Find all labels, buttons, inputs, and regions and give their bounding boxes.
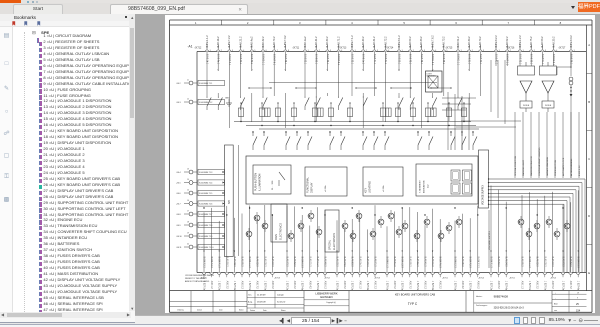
svg-text:2: 2 <box>365 50 366 52</box>
svg-text:B.6M.1.2.3: B.6M.1.2.3 <box>400 257 402 269</box>
svg-text:B.A5.50.1: B.A5.50.1 <box>397 54 400 65</box>
svg-text:1: 1 <box>498 50 499 52</box>
svg-text:Gen.: Gen. <box>248 294 252 296</box>
svg-text:B.6M.7.1.3: B.6M.7.1.3 <box>489 257 491 269</box>
svg-text:11.09.09: 11.09.09 <box>257 295 266 297</box>
svg-text:B.A5.34.3: B.A5.34.3 <box>504 257 507 268</box>
svg-text:DISPLAY: DISPLAY <box>310 182 313 193</box>
svg-text:13: 13 <box>187 168 189 170</box>
svg-text:B.A5.1a.2: B.A5.1a.2 <box>303 36 306 48</box>
svg-text:Ordering: Ordering <box>177 308 184 311</box>
svg-text:KEY: KEY <box>364 188 367 193</box>
svg-text:9-5009084.T1.7: 9-5009084.T1.7 <box>199 214 212 216</box>
svg-text:6: 6 <box>455 21 457 25</box>
svg-text:1 B27.4a: 1 B27.4a <box>232 281 234 291</box>
svg-text:1: 1 <box>194 21 196 25</box>
svg-text:154: 154 <box>576 310 581 313</box>
svg-text:A06.1.2: A06.1.2 <box>520 281 523 290</box>
svg-text:-X6.6: -X6.6 <box>176 193 181 195</box>
svg-text:1: 1 <box>460 50 461 52</box>
svg-text:Blatt: Blatt <box>554 303 558 306</box>
svg-text:B.A5.50.3: B.A5.50.3 <box>225 257 228 268</box>
svg-text:A06.4.2: A06.4.2 <box>461 281 464 290</box>
svg-text:A06.3.2: A06.3.2 <box>225 281 228 290</box>
svg-text:AUTOMATIC LOCK: AUTOMATIC LOCK <box>562 157 565 176</box>
svg-text:4: 4 <box>556 50 557 52</box>
svg-text:Date: Date <box>263 309 267 312</box>
svg-text:B.6M.7.2.3: B.6M.7.2.3 <box>468 257 470 269</box>
svg-text:B.A5.32.3: B.A5.32.3 <box>255 257 258 268</box>
svg-text:B.A5.1b.3: B.A5.1b.3 <box>358 257 361 268</box>
svg-text:-X6.9: -X6.9 <box>176 225 181 227</box>
svg-text:B.A5.31.1: B.A5.31.1 <box>384 54 387 65</box>
svg-text:B.A5.51.3: B.A5.51.3 <box>393 257 396 268</box>
svg-text:ARE NOT PATH-RELATED: ARE NOT PATH-RELATED <box>185 280 210 283</box>
svg-text:1: 1 <box>522 50 523 52</box>
svg-text:4: 4 <box>388 50 389 52</box>
svg-text:SPI: SPI <box>228 200 231 204</box>
svg-text:5: 5 <box>446 50 447 52</box>
svg-text:B.A5.32.1: B.A5.32.1 <box>350 54 353 65</box>
svg-text:B.A5.30.1: B.A5.30.1 <box>239 54 242 65</box>
svg-text:3: 3 <box>545 50 546 52</box>
svg-text:-X712: -X712 <box>324 278 331 280</box>
svg-text:20: 20 <box>187 243 189 245</box>
svg-text:B.A5.72.3: B.A5.72.3 <box>550 257 553 268</box>
svg-text:1 B27.6a: 1 B27.6a <box>315 281 317 291</box>
svg-text:B.A5.35.1: B.A5.35.1 <box>442 54 445 65</box>
svg-text:B.A5.1b.2: B.A5.1b.2 <box>217 36 220 48</box>
svg-text:15: 15 <box>187 189 189 191</box>
svg-text:B.A5.72.1: B.A5.72.1 <box>518 54 521 65</box>
svg-text:B.A5.74.1: B.A5.74.1 <box>419 54 422 65</box>
svg-text:B.A5.70.3: B.A5.70.3 <box>365 257 368 268</box>
svg-text:D: D <box>588 214 590 218</box>
svg-text:9-5009084.T1.5: 9-5009084.T1.5 <box>199 193 212 195</box>
svg-text:B.A5.40.3: B.A5.40.3 <box>323 257 326 268</box>
svg-text:12: 12 <box>187 98 189 100</box>
svg-text:B.6M.7.2.1: B.6M.7.2.1 <box>337 54 339 66</box>
svg-text:B.A5.34.3: B.A5.34.3 <box>232 257 235 268</box>
svg-text:+: + <box>555 292 556 294</box>
svg-text:A06.7.2: A06.7.2 <box>255 281 258 290</box>
svg-text:Name: Name <box>281 310 286 312</box>
svg-text:A06.6.2: A06.6.2 <box>476 281 479 290</box>
svg-text:19: 19 <box>577 292 579 294</box>
svg-text:±≡ 68x: ±≡ 68x <box>324 184 327 192</box>
svg-text:B.A5.4a.3: B.A5.4a.3 <box>415 257 418 268</box>
svg-text:3: 3 <box>330 50 331 52</box>
svg-text:1: 1 <box>209 50 210 52</box>
svg-text:B.A5.34.1: B.A5.34.1 <box>283 54 286 65</box>
svg-text:B.6M.7.6.3: B.6M.7.6.3 <box>438 257 440 269</box>
svg-text:B.A5.33.3: B.A5.33.3 <box>335 257 338 268</box>
svg-text:PARKING LIGHT: PARKING LIGHT <box>522 159 525 176</box>
svg-text:Identnr.:: Identnr.: <box>476 295 483 298</box>
svg-text:1: 1 <box>573 50 574 52</box>
svg-text:B.A5.40.1: B.A5.40.1 <box>250 54 253 65</box>
svg-text:-A1: -A1 <box>187 45 192 49</box>
svg-text:ELECTRONICS: ELECTRONICS <box>333 233 336 250</box>
svg-text:3: 3 <box>232 50 233 52</box>
svg-text:Copyright (c): Copyright (c) <box>326 301 336 304</box>
svg-text:B.6M.7.2.2: B.6M.7.2.2 <box>228 35 231 48</box>
svg-text:B.A5.71.3: B.A5.71.3 <box>373 257 376 268</box>
svg-text:B.A5.31.2: B.A5.31.2 <box>373 36 376 48</box>
svg-text:B.6M.1.1.3: B.6M.1.1.3 <box>248 257 250 269</box>
svg-text:A06.7.2: A06.7.2 <box>569 281 572 290</box>
svg-text:B.A5.21.1: B.A5.21.1 <box>467 54 470 65</box>
svg-text:2: 2 <box>471 50 472 52</box>
svg-text:VOLTAGE SUPPLY: VOLTAGE SUPPLY <box>481 184 484 205</box>
svg-text:11: 11 <box>187 79 189 81</box>
svg-text:B.A5.32.3: B.A5.32.3 <box>535 257 538 268</box>
svg-text:2: 2 <box>533 50 534 52</box>
svg-text:B.A5.75.2: B.A5.75.2 <box>530 36 533 48</box>
svg-text:ludwigD: ludwigD <box>277 294 284 296</box>
svg-text:-X714: -X714 <box>550 278 557 280</box>
svg-text:TYP C: TYP C <box>407 302 417 306</box>
svg-text:4: 4 <box>351 21 353 25</box>
svg-text:B: B <box>588 100 590 104</box>
svg-text:1 B27.6a: 1 B27.6a <box>453 281 455 291</box>
svg-text:2: 2 <box>318 50 319 52</box>
svg-text:4: 4 <box>435 50 436 52</box>
svg-text:WARNING BEACON: WARNING BEACON <box>530 156 533 176</box>
svg-text:B.6M.1.1.3: B.6M.1.1.3 <box>528 257 530 269</box>
svg-text:B.A5.73.3: B.A5.73.3 <box>285 257 288 268</box>
svg-text:B.6M.7.1.1: B.6M.7.1.1 <box>505 54 507 66</box>
svg-text:4: 4 <box>243 50 244 52</box>
svg-text:MAIN: MAIN <box>275 234 278 240</box>
svg-text:1 B27.2a: 1 B27.2a <box>561 281 563 291</box>
svg-text:B.A5.1a.1: B.A5.1a.1 <box>361 54 364 65</box>
svg-text:Datum: Datum <box>250 309 256 312</box>
svg-text:B.6M.7.6.2: B.6M.7.6.2 <box>431 35 434 48</box>
svg-text:8: 8 <box>559 21 561 25</box>
svg-text:1 B27.0a: 1 B27.0a <box>468 281 470 291</box>
svg-text:B.A5.53.3: B.A5.53.3 <box>350 257 353 268</box>
svg-text:B.A5.76.1: B.A5.76.1 <box>325 54 328 65</box>
svg-text:9-5009084.T1.10: 9-5009084.T1.10 <box>199 247 213 249</box>
svg-text:1 B27.0a: 1 B27.0a <box>400 281 402 291</box>
svg-text:B.A5.71.2: B.A5.71.2 <box>337 36 340 48</box>
svg-text:-X6.2: -X6.2 <box>176 83 181 85</box>
svg-text:SPECIAL FUNCTION: SPECIAL FUNCTION <box>514 155 517 176</box>
svg-text:1 B27.4a: 1 B27.4a <box>431 281 433 291</box>
svg-text:COMPLEMENTARY HEATING: COMPLEMENTARY HEATING <box>538 147 541 176</box>
svg-text:-JX711: -JX711 <box>292 48 300 50</box>
svg-text:B.A5.40.2: B.A5.40.2 <box>362 36 365 48</box>
svg-text:B.6M.9.1.2: B.6M.9.1.2 <box>397 35 400 48</box>
svg-text:GND: GND <box>225 98 230 100</box>
svg-text:9-5009084.T1.4: 9-5009084.T1.4 <box>199 182 212 184</box>
svg-text:B.6M.1.1.2: B.6M.1.1.2 <box>205 35 208 48</box>
svg-text:B.6M.7.3.2: B.6M.7.3.2 <box>284 35 287 48</box>
svg-text:ILLUMINATION: ILLUMINATION <box>258 173 261 191</box>
svg-text:19: 19 <box>187 232 189 234</box>
svg-text:2: 2 <box>246 21 248 25</box>
svg-text:FUNCTIONAL: FUNCTIONAL <box>306 176 309 193</box>
svg-text:B.A5.31.3: B.A5.31.3 <box>431 257 434 268</box>
svg-text:B.A5.52.1: B.A5.52.1 <box>303 54 306 65</box>
svg-text:-X6.11: -X6.11 <box>176 247 181 249</box>
svg-text:VOLTAGE SUPPLY: VOLTAGE SUPPLY <box>488 230 491 250</box>
svg-text:1 B27.2a: 1 B27.2a <box>285 281 287 291</box>
svg-text:1 B27.0a: 1 B27.0a <box>335 281 337 291</box>
svg-text:INVERTER: INVERTER <box>426 75 436 77</box>
svg-text:von: von <box>554 310 557 312</box>
svg-text:1: 1 <box>354 50 355 52</box>
svg-text:-X711: -X711 <box>509 278 515 280</box>
svg-text:3: 3 <box>424 50 425 52</box>
svg-text:B.A5.41.3: B.A5.41.3 <box>423 257 426 268</box>
svg-text:B.A5.1a.3: B.A5.1a.3 <box>315 257 318 268</box>
svg-text:A06.8.2: A06.8.2 <box>343 281 346 290</box>
svg-text:B.A5.52.3: B.A5.52.3 <box>569 257 572 268</box>
svg-text:B.6M.9.2.1: B.6M.9.2.1 <box>552 54 554 66</box>
svg-text:-X714: -X714 <box>478 278 485 280</box>
svg-text:HAZARD WARNING: HAZARD WARNING <box>546 157 549 176</box>
svg-text:B.6M.9.1.1: B.6M.9.1.1 <box>261 54 263 66</box>
svg-text:B.A5.75.3: B.A5.75.3 <box>240 257 243 268</box>
svg-text:A: A <box>588 43 590 47</box>
svg-text:DIODE: DIODE <box>544 105 551 107</box>
svg-text:9-5009084.T1.2: 9-5009084.T1.2 <box>199 102 212 104</box>
svg-text:B.A5.70.1: B.A5.70.1 <box>478 54 481 65</box>
svg-text:A06.5.2: A06.5.2 <box>550 281 553 290</box>
svg-text:31 ... 36S: 31 ... 36S <box>272 180 274 190</box>
svg-text:REFER TO THE SHEET: REFER TO THE SHEET <box>185 278 208 280</box>
svg-text:3: 3 <box>483 50 484 52</box>
svg-text:B.6M.1.1.1: B.6M.1.1.1 <box>456 54 458 66</box>
svg-text:1 B27.0a: 1 B27.0a <box>543 281 545 291</box>
svg-text:A06.8.2: A06.8.2 <box>497 281 500 290</box>
svg-text:±≡ 68x: ±≡ 68x <box>382 184 385 192</box>
svg-text:A06.1.2: A06.1.2 <box>210 281 213 290</box>
svg-text:B.6M.7.3.3: B.6M.7.3.3 <box>476 257 478 269</box>
svg-text:B.A5.21.3: B.A5.21.3 <box>308 257 311 268</box>
svg-text:-X6.4: -X6.4 <box>176 172 181 174</box>
svg-text:B.A5.72.2: B.A5.72.2 <box>384 36 387 48</box>
svg-text:B.A5.75.3: B.A5.75.3 <box>520 257 523 268</box>
svg-text:EHINGEN: EHINGEN <box>320 295 332 299</box>
svg-text:2: 2 <box>509 50 510 52</box>
svg-text:CROSS REFERENCES WHICH: CROSS REFERENCES WHICH <box>185 275 214 277</box>
svg-text:-X711: -X711 <box>442 278 448 280</box>
svg-text:AFTER-RUNNING: AFTER-RUNNING <box>570 158 573 176</box>
svg-text:INDICATION: INDICATION <box>422 180 425 193</box>
svg-text:25: 25 <box>576 303 579 306</box>
svg-text:7: 7 <box>276 50 277 52</box>
svg-text:B.A5.73.2: B.A5.73.2 <box>442 36 445 48</box>
svg-text:9-5009084.T1.9: 9-5009084.T1.9 <box>199 236 212 238</box>
svg-text:B.19F.1 .12: B.19F.1 .12 <box>579 165 581 176</box>
svg-text:B.6M.7.3.1: B.6M.7.3.1 <box>227 54 229 66</box>
svg-text:4: 4 <box>341 50 342 52</box>
svg-text:18: 18 <box>187 221 189 223</box>
svg-text:1: 1 <box>307 50 308 52</box>
svg-text:1 B27.2a: 1 B27.2a <box>489 281 491 291</box>
svg-text:1 B27.4a: 1 B27.4a <box>365 281 367 291</box>
svg-text:B.6M.7.6.1: B.6M.7.6.1 <box>272 54 274 66</box>
svg-text:PRESELECTION: PRESELECTION <box>555 159 557 176</box>
svg-text:LIEBHERR WERK: LIEBHERR WERK <box>315 291 337 295</box>
svg-text:B.A5.33.1: B.A5.33.1 <box>529 54 532 65</box>
svg-text:-X713: -X713 <box>374 278 381 280</box>
svg-text:-JX717: -JX717 <box>558 48 566 50</box>
svg-text:B.A5.53.1: B.A5.53.1 <box>314 54 317 65</box>
svg-text:B.6M.9.3.2: B.6M.9.3.2 <box>569 35 572 48</box>
svg-text:18.09.09: 18.09.09 <box>257 302 266 304</box>
svg-text:1 B27.6a: 1 B27.6a <box>528 281 530 291</box>
svg-text:A06.6.2: A06.6.2 <box>323 281 326 290</box>
svg-text:9: 9 <box>577 298 578 300</box>
svg-text:9-5009084.T1.8: 9-5009084.T1.8 <box>199 225 212 227</box>
svg-text:B.A5.50.3: B.A5.50.3 <box>497 257 500 268</box>
svg-text:Ausg.: Ausg. <box>248 300 253 303</box>
svg-text:B.A5.1b.1: B.A5.1b.1 <box>205 54 208 65</box>
svg-text:A06.3.2: A06.3.2 <box>535 281 538 290</box>
svg-text:7-SEGMENT: 7-SEGMENT <box>419 180 421 193</box>
svg-text:1 B27.2a: 1 B27.2a <box>217 281 219 291</box>
svg-text:B.A5.35.3: B.A5.35.3 <box>461 257 464 268</box>
svg-text:C: C <box>588 157 590 161</box>
svg-text:B.A5.52.3: B.A5.52.3 <box>293 257 296 268</box>
svg-text:B.6M.9.2.2: B.6M.9.2.2 <box>494 35 497 48</box>
svg-text:A06.4.2: A06.4.2 <box>308 281 311 290</box>
svg-text:A06.2.2: A06.2.2 <box>438 281 441 290</box>
svg-text:B.A5.30.3: B.A5.30.3 <box>263 257 266 268</box>
svg-text:2: 2 <box>412 50 413 52</box>
svg-text:B.A5.50.2: B.A5.50.2 <box>409 36 412 48</box>
svg-text:B.A5.35.2: B.A5.35.2 <box>552 36 555 48</box>
svg-text:ELECTRONICS: ELECTRONICS <box>279 223 282 240</box>
svg-text:B.A5.41.1: B.A5.41.1 <box>494 54 497 65</box>
svg-text:Date: Date <box>219 308 223 311</box>
svg-text:98B574608: 98B574608 <box>493 295 508 299</box>
svg-text:B.A5.34.2: B.A5.34.2 <box>468 36 471 48</box>
svg-text:A06.3.2: A06.3.2 <box>373 281 376 290</box>
svg-text:B.A5.74.2: B.A5.74.2 <box>479 36 482 48</box>
svg-text:1 B27.6a: 1 B27.6a <box>248 281 250 291</box>
svg-text:9-5009084.T1.6: 9-5009084.T1.6 <box>199 203 212 205</box>
svg-text:9-5009084.T1.1: 9-5009084.T1.1 <box>199 83 212 85</box>
svg-text:2: 2 <box>220 50 221 52</box>
svg-text:1 B27.0a: 1 B27.0a <box>263 281 265 291</box>
svg-text:B.A5.32.2: B.A5.32.2 <box>261 36 264 48</box>
svg-text:A06.0.2: A06.0.2 <box>423 281 426 290</box>
svg-text:B.A5.51.2: B.A5.51.2 <box>456 36 459 48</box>
svg-text:B.A5.41.2: B.A5.41.2 <box>315 36 318 48</box>
svg-text:1 B27.2a: 1 B27.2a <box>415 281 417 291</box>
svg-text:B.A5.4a.2: B.A5.4a.2 <box>250 36 253 48</box>
svg-text:A06.5.2: A06.5.2 <box>393 281 396 290</box>
svg-text:B.A5.33.2: B.A5.33.2 <box>420 36 423 48</box>
svg-text:B.A5.53.2: B.A5.53.2 <box>541 36 544 48</box>
svg-text:B.A5.30.2: B.A5.30.2 <box>326 36 329 48</box>
svg-text:B.A5.4a.1: B.A5.4a.1 <box>216 54 219 65</box>
svg-text:3: 3 <box>377 50 378 52</box>
svg-text:KEY BOARD UNIT DRIVERS CAB: KEY BOARD UNIT DRIVERS CAB <box>394 292 434 296</box>
svg-text:B.A5.76.3: B.A5.76.3 <box>408 257 411 268</box>
svg-text:5: 5 <box>403 21 405 25</box>
svg-text:A06.5.2: A06.5.2 <box>240 281 243 290</box>
svg-text:B.A5.30.3: B.A5.30.3 <box>543 257 546 268</box>
svg-text:-JX716: -JX716 <box>507 48 515 50</box>
svg-text:B.A5.70.2: B.A5.70.2 <box>273 36 276 48</box>
svg-text:3: 3 <box>299 21 301 25</box>
svg-text:A06.2.2: A06.2.2 <box>293 281 296 290</box>
svg-text:-X713: -X713 <box>274 278 281 280</box>
svg-text:B.A5.21.2: B.A5.21.2 <box>239 36 242 48</box>
svg-text:B.A5.71.1: B.A5.71.1 <box>372 54 375 65</box>
svg-text:1 B27.4a: 1 B27.4a <box>504 281 506 291</box>
svg-text:B.6M.7.3.3: B.6M.7.3.3 <box>210 257 212 269</box>
svg-text:A06.1.2: A06.1.2 <box>358 281 361 290</box>
svg-text:B.A5.52.2: B.A5.52.2 <box>506 36 509 48</box>
svg-text:E: E <box>588 271 590 275</box>
svg-text:-X6.10: -X6.10 <box>176 236 182 238</box>
svg-text:SPECIAL: SPECIAL <box>328 239 331 250</box>
svg-text:B.6M.9.3.3: B.6M.9.3.3 <box>576 257 578 269</box>
svg-text:14: 14 <box>187 179 189 181</box>
svg-text:B.6M.1.2.2: B.6M.1.2.2 <box>518 35 521 48</box>
svg-text:A06.0.2: A06.0.2 <box>270 281 273 290</box>
svg-text:B.6M.9.2.3: B.6M.9.2.3 <box>453 257 455 269</box>
svg-text:Datum: Datum <box>197 308 203 311</box>
svg-text:PUSH-BUTTON: PUSH-BUTTON <box>254 173 257 191</box>
svg-text:B.A5.73.1: B.A5.73.1 <box>408 54 411 65</box>
svg-text:LIGHTING: LIGHTING <box>368 181 371 193</box>
svg-text:B.6M.7.1.2: B.6M.7.1.2 <box>350 35 353 48</box>
svg-text:DIODE: DIODE <box>522 105 529 107</box>
svg-text:-JX714: -JX714 <box>386 48 394 50</box>
svg-text:A06.7.2: A06.7.2 <box>408 281 411 290</box>
svg-text:9-5009084.T1.3: 9-5009084.T1.3 <box>199 172 212 174</box>
svg-text:frankfurtD: frankfurtD <box>277 300 286 303</box>
svg-text:16: 16 <box>187 200 189 202</box>
svg-text:8: 8 <box>288 50 289 52</box>
svg-text:B.6M.9.3.3: B.6M.9.3.3 <box>300 257 302 269</box>
svg-text:-X6.5: -X6.5 <box>176 183 181 185</box>
svg-text:1 B27.2a: 1 B27.2a <box>350 281 352 291</box>
svg-text:6: 6 <box>265 50 266 52</box>
svg-text:-JX712: -JX712 <box>194 48 202 50</box>
svg-text:2x2: 2x2 <box>427 184 429 188</box>
svg-text:-X6.8: -X6.8 <box>176 214 181 216</box>
svg-text:B.A5.51.1: B.A5.51.1 <box>540 54 543 65</box>
svg-text:Name: Name <box>239 309 244 311</box>
svg-text:-JX715: -JX715 <box>445 48 453 50</box>
svg-text:Zeichnungsnr.:: Zeichnungsnr.: <box>476 305 488 307</box>
svg-text:7: 7 <box>507 21 509 25</box>
svg-text:-X6.7: -X6.7 <box>176 204 181 206</box>
svg-text:17: 17 <box>187 210 189 212</box>
svg-text:1 B27.4a: 1 B27.4a <box>576 281 578 291</box>
svg-text:-JX713: -JX713 <box>339 48 347 50</box>
svg-text:1: 1 <box>401 50 402 52</box>
svg-text:1 B27.6a: 1 B27.6a <box>385 281 387 291</box>
svg-text:B.6M.7.2.3: B.6M.7.2.3 <box>202 257 204 269</box>
svg-text:5: 5 <box>254 50 255 52</box>
svg-text:3263-926.26.00.00 b24.t2+3: 3263-926.26.00.00 b24.t2+3 <box>493 307 524 310</box>
svg-text:B.A5.72.3: B.A5.72.3 <box>270 257 273 268</box>
svg-text:B.A5.74.3: B.A5.74.3 <box>343 257 346 268</box>
svg-text:1 B27.4a: 1 B27.4a <box>300 281 302 291</box>
svg-text:-X6.3: -X6.3 <box>176 102 181 104</box>
svg-text:B.6M.9.1.3: B.6M.9.1.3 <box>385 257 387 269</box>
